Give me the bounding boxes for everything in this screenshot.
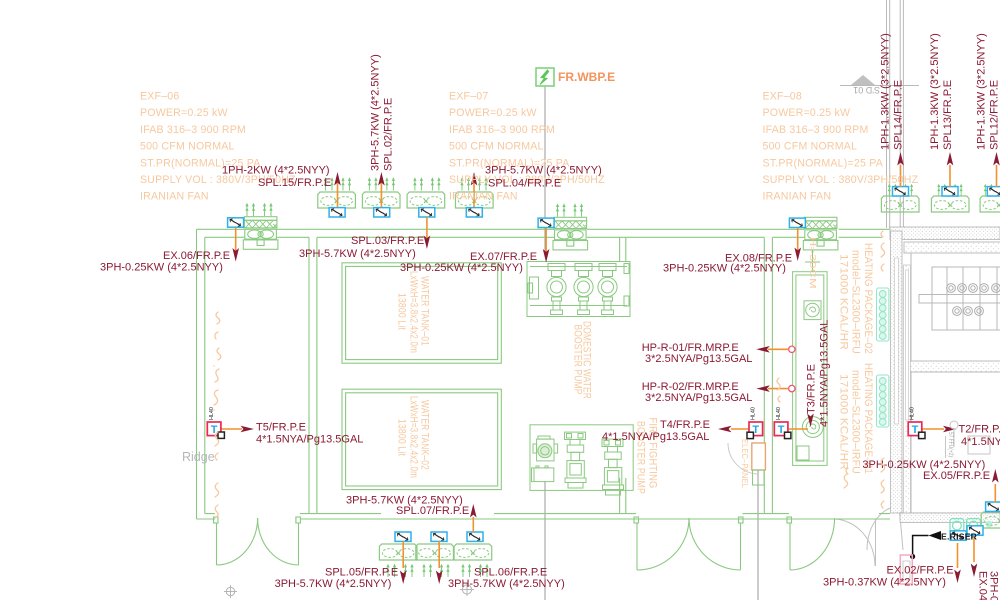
wall between left room and tank room: [308, 237, 310, 513]
svg-text:13800 Lit: 13800 Lit: [396, 293, 408, 330]
bottom wall double: [197, 518, 891, 520]
svg-text:3*2.5NYA/Pg13.5GAL: 3*2.5NYA/Pg13.5GAL: [645, 353, 752, 365]
svg-text:171000 KCAL/HR: 171000 KCAL/HR: [838, 374, 850, 470]
svg-text:HL40: HL40: [209, 407, 215, 420]
svg-text:HL40: HL40: [776, 407, 782, 420]
T3 vertical label arrow: [807, 414, 814, 428]
svg-text:H=30CM: H=30CM: [808, 237, 818, 289]
E.RISER fan arrows down: [954, 570, 961, 584]
fan switch SPL.02: [374, 208, 390, 217]
svg-text:POWER=0.25 kW: POWER=0.25 kW: [763, 107, 851, 119]
svg-text:IRANIAN FAN: IRANIAN FAN: [763, 191, 832, 203]
wire EX.08: [797, 228, 799, 251]
svg-text:T5/FR.P.E: T5/FR.P.E: [256, 422, 306, 434]
wire EX.03: [957, 543, 959, 568]
middle vertical pump: [565, 432, 587, 488]
wall fan SPL13: [931, 196, 969, 212]
svg-text:SPL.07/FR.P.E: SPL.07/FR.P.E: [396, 505, 469, 517]
svg-text:FIRE FIGHTING: FIRE FIGHTING: [647, 418, 659, 489]
wire SPL.15: [337, 183, 339, 207]
fan switch EX.08: [789, 218, 805, 227]
svg-text:HL40: HL40: [910, 407, 916, 420]
arrowhead SPL.04: [471, 172, 478, 186]
svg-text:IFAB 316–3 900 RPM: IFAB 316–3 900 RPM: [140, 124, 246, 136]
svg-text:SUPPLY VOL : 380V/3PH/50HZ: SUPPLY VOL : 380V/3PH/50HZ: [763, 174, 919, 186]
supply fan SPL.07: [454, 544, 492, 560]
wire SPL12: [996, 165, 998, 187]
bottom-middle double door: [634, 517, 743, 570]
wall fan SPL12: [980, 196, 1000, 212]
svg-text:3PH-0.25KW (4*2.5NYY): 3PH-0.25KW (4*2.5NYY): [400, 262, 523, 274]
arrowhead SPL.02: [378, 172, 385, 186]
wall fan EX.05: [981, 512, 1000, 528]
thermostat T3: [774, 422, 788, 436]
svg-text:POWER=0.25 kW: POWER=0.25 kW: [140, 107, 228, 119]
wire EX.06: [235, 228, 237, 252]
wire SPL.03: [426, 217, 428, 238]
svg-text:S'D 01: S'D 01: [853, 85, 880, 95]
wire SPL.02: [380, 183, 382, 207]
door arc right room: [867, 506, 900, 550]
svg-text:T3/FR.P.E: T3/FR.P.E: [806, 364, 818, 414]
arrowhead SPL.15: [334, 172, 341, 186]
tank room right wall stubs: [620, 237, 626, 513]
svg-text:IRANIAN FAN: IRANIAN FAN: [449, 191, 518, 203]
svg-text:3PH-5.7KW (4*2.5NYY): 3PH-5.7KW (4*2.5NYY): [448, 578, 565, 590]
fan switch SPL.15: [329, 208, 345, 217]
leader T2: [922, 428, 944, 430]
lower right room interior: [911, 372, 1000, 513]
svg-text:500 CFM NORMAL: 500 CFM NORMAL: [763, 141, 858, 153]
svg-text:3PH-0.37KW (4*2.5NYY): 3PH-0.37KW (4*2.5NYY): [823, 577, 946, 589]
fan switch SPL.07: [467, 532, 483, 541]
svg-text:1PH-1.3KW (3*2.5NYY): 1PH-1.3KW (3*2.5NYY): [880, 33, 892, 150]
water tank WATER TANK-01: [342, 263, 501, 363]
feed line from FR.WBP.E: [544, 86, 546, 251]
air vents SPL.15: [324, 177, 351, 190]
svg-text:model–SL2300–IRFU: model–SL2300–IRFU: [850, 250, 862, 354]
svg-text:POWER=0.25 kW: POWER=0.25 kW: [449, 107, 537, 119]
wire SPL14: [900, 165, 902, 187]
svg-text:500 CFM NORMAL: 500 CFM NORMAL: [140, 141, 235, 153]
svg-text:SPL.06/FR.P.E: SPL.06/FR.P.E: [474, 567, 547, 579]
leader T3: [788, 428, 808, 430]
svg-text:LxWxH=3.8x2.4x2.0m: LxWxH=3.8x2.4x2.0m: [408, 396, 420, 478]
svg-text:EX.04/FR.P.E: EX.04/FR.P.E: [977, 571, 989, 600]
svg-text:SPL12/FR.P.E: SPL12/FR.P.E: [989, 80, 1000, 150]
water tank WATER TANK-02: [342, 389, 501, 489]
air vents SPL.07: [461, 564, 488, 577]
svg-text:3PH-5.7KW (4*2.5NYY): 3PH-5.7KW (4*2.5NYY): [485, 165, 602, 177]
air vents SPL.03: [413, 177, 440, 190]
svg-text:IFAB 316–3 900 RPM: IFAB 316–3 900 RPM: [449, 124, 555, 136]
svg-text:3PH-0.25KW: 3PH-0.25KW: [988, 571, 1000, 600]
bottom-left double door: [214, 517, 301, 565]
svg-text:FR.WBP.E: FR.WBP.E: [558, 70, 615, 84]
fan switch SPL12: [987, 187, 1000, 196]
svg-text:HEATING PACKAGE–02: HEATING PACKAGE–02: [862, 243, 874, 354]
svg-text:BOOSTER PUMP: BOOSTER PUMP: [572, 325, 584, 395]
svg-text:Ridge: Ridge: [182, 450, 215, 464]
grid line pair top right: [886, 0, 888, 228]
air vents SPL12: [984, 184, 1000, 196]
supply fan SPL.15: [318, 192, 356, 208]
svg-text:3PH-5.7KW (4*2.5NYY): 3PH-5.7KW (4*2.5NYY): [299, 248, 416, 260]
supply fan SPL.04: [456, 192, 494, 208]
supply fan SPL.06: [416, 544, 454, 560]
svg-text:1PH-1.3KW (3*2.5NYY): 1PH-1.3KW (3*2.5NYY): [976, 33, 988, 150]
fan switch SPL13: [942, 187, 958, 196]
wire SPL13: [949, 165, 951, 187]
jockey pump: [537, 439, 554, 461]
top wall double: [197, 228, 891, 230]
right section rooms: [911, 253, 1000, 361]
svg-text:3PH-5.7KW (4*2.5NYY): 3PH-5.7KW (4*2.5NYY): [370, 54, 382, 171]
svg-text:ELEC–PANEL: ELEC–PANEL: [740, 439, 750, 488]
roof exhaust fan EX.07: [553, 217, 588, 250]
column markers: [224, 583, 474, 598]
wire SPL.04: [473, 183, 475, 207]
fan switch EX.05: [986, 502, 1000, 511]
pump room right wall: [763, 237, 765, 513]
svg-text:500 CFM NORMAL: 500 CFM NORMAL: [449, 141, 544, 153]
svg-text:IRANIAN FAN: IRANIAN FAN: [140, 191, 209, 203]
thermostat T2: [908, 422, 922, 436]
svg-text:3PH-0.25KW (4*2.5NYY): 3PH-0.25KW (4*2.5NYY): [663, 263, 786, 275]
leader T4: [731, 428, 749, 430]
svg-text:EXF–07: EXF–07: [449, 91, 488, 103]
line below elec panel: [757, 470, 759, 600]
svg-text:SPL.04/FR.P.E: SPL.04/FR.P.E: [488, 178, 561, 190]
svg-text:57 FFU(+2): 57 FFU(+2): [947, 432, 954, 457]
supply fan SPL.05: [379, 544, 417, 560]
fan switch SPL.03: [419, 208, 435, 217]
level marker line: [840, 85, 919, 87]
svg-text:EX.02/FR.P.E: EX.02/FR.P.E: [887, 565, 954, 577]
roof exhaust fan EX.06: [243, 217, 278, 250]
thermostat T4: [749, 422, 763, 436]
svg-text:SPL13/FR.P.E: SPL13/FR.P.E: [942, 80, 954, 150]
svg-text:IFAB 316–3 900 RPM: IFAB 316–3 900 RPM: [763, 124, 869, 136]
fan switch SPL14: [893, 187, 909, 196]
svg-text:SPL.03/FR.P.E: SPL.03/FR.P.E: [351, 235, 424, 247]
wire EX.07: [545, 228, 547, 252]
leader HP-R-01: [768, 348, 789, 350]
supply fan SPL.02: [362, 192, 400, 208]
roof exhaust fan EX.08: [803, 217, 838, 250]
HP-R connection circles: [789, 346, 795, 352]
svg-text:4*1.5NYA: 4*1.5NYA: [961, 436, 1000, 448]
leader arrows (horizontal): [241, 426, 255, 433]
wire SPL.06: [438, 541, 440, 568]
thermostat T5: [207, 422, 221, 436]
svg-text:SPL.15/FR.P.E: SPL.15/FR.P.E: [258, 177, 331, 189]
svg-text:3*2.5NYA/Pg13.5GAL: 3*2.5NYA/Pg13.5GAL: [645, 392, 752, 404]
air vents EX.06: [245, 203, 272, 216]
svg-text:4*1.5NYA/Pg13.5GAL: 4*1.5NYA/Pg13.5GAL: [602, 431, 709, 443]
air vents SPL.04: [460, 177, 487, 190]
svg-text:171000 KCAL/HR: 171000 KCAL/HR: [838, 254, 850, 350]
svg-text:3PH-0.25KW (4*2.5NYY): 3PH-0.25KW (4*2.5NYY): [100, 262, 223, 274]
left wall double: [196, 229, 198, 519]
bottom-right door green leaf: [787, 517, 835, 570]
door arc near elec panel: [728, 443, 759, 474]
wire SPL.05: [402, 541, 404, 568]
wire EX.04: [973, 538, 975, 562]
air vents SPL.05: [386, 564, 413, 577]
svg-text:1PH-1.3KW (3*2.5NYY): 1PH-1.3KW (3*2.5NYY): [929, 33, 941, 150]
leader T5: [221, 428, 242, 430]
svg-text:HEATING PACKAGE–01: HEATING PACKAGE–01: [862, 363, 874, 474]
fan switch SPL.04: [466, 208, 482, 217]
tank box below jockey: [532, 468, 554, 482]
svg-text:LxWxH=3.8x2.4x2.0m: LxWxH=3.8x2.4x2.0m: [408, 271, 420, 353]
air vents SPL13: [937, 184, 962, 196]
air vents EX.07: [556, 203, 583, 216]
svg-text:model–SL2300–IRFU: model–SL2300–IRFU: [850, 370, 862, 474]
svg-text:1PH-2KW (4*2.5NYY): 1PH-2KW (4*2.5NYY): [222, 165, 330, 177]
wire EX.05: [994, 484, 996, 502]
heater unit: [932, 267, 1000, 330]
svg-text:SPL.02/FR.P.E: SPL.02/FR.P.E: [383, 98, 395, 171]
svg-text:T4/FR.P.E: T4/FR.P.E: [660, 419, 710, 431]
svg-text:SPL14/FR.P.E: SPL14/FR.P.E: [893, 80, 905, 150]
fan switch SPL.06: [431, 532, 447, 541]
svg-text:E.RISER: E.RISER: [941, 531, 978, 541]
wall fan SPL14: [881, 196, 919, 212]
svg-text:13800 Lit: 13800 Lit: [396, 419, 408, 456]
svg-text:3PH-5.7KW (4*2.5NYY): 3PH-5.7KW (4*2.5NYY): [275, 578, 392, 590]
svg-text:EX.06/FR.P.E: EX.06/FR.P.E: [163, 250, 230, 262]
svg-text:T2/FR.P.E: T2/FR.P.E: [959, 424, 1000, 436]
svg-text:EXF–06: EXF–06: [140, 91, 179, 103]
svg-text:HL40: HL40: [751, 407, 757, 420]
svg-text:4*1.5NYA/Pg13.5GAL: 4*1.5NYA/Pg13.5GAL: [256, 434, 363, 446]
svg-text:SPL.05/FR.P.E: SPL.05/FR.P.E: [325, 567, 398, 579]
fan switch EX.07: [538, 218, 554, 227]
air vents SPL14: [888, 184, 913, 196]
svg-text:4*1.5NYA/Pg13.5GAL: 4*1.5NYA/Pg13.5GAL: [819, 320, 831, 427]
gray door leaf bottom right door: [875, 519, 877, 566]
air vents SPL.06: [422, 564, 449, 577]
leader HP-R-02: [768, 388, 789, 390]
air vents SPL.02: [368, 177, 395, 190]
fan switch EX.06: [228, 218, 244, 227]
wire SPL.07: [472, 517, 474, 532]
supply fan SPL.03: [407, 192, 445, 208]
fan switch SPL.05: [395, 532, 411, 541]
svg-text:EXF–08: EXF–08: [763, 91, 802, 103]
svg-text:ST.PR(NORMAL)=25 PA: ST.PR(NORMAL)=25 PA: [763, 157, 884, 169]
svg-text:EX.05/FR.P.E: EX.05/FR.P.E: [923, 470, 990, 482]
